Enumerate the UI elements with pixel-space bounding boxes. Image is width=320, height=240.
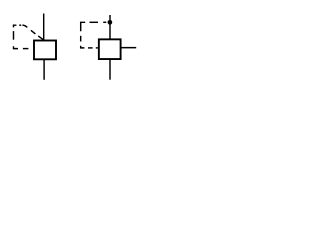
junction dot F2 <box>108 20 113 25</box>
mechanical link curve F1 : dash 1 (bend) <box>22 25 27 27</box>
fuse body box F2 <box>99 39 121 59</box>
fuse F2 (with alarm contact) <box>81 15 137 80</box>
fuse F1 (with striker) <box>14 14 57 80</box>
wire top terminal F1 <box>43 14 45 41</box>
striker link dash to junction F2 <box>90 21 99 23</box>
striker housing bracket F1 : top-left corner piece <box>14 25 17 27</box>
fuse body box F1 <box>34 41 56 60</box>
mechanical link curve F1 : dash 3 (to box corner) <box>38 36 43 40</box>
wire bottom terminal F2 <box>109 59 111 80</box>
striker housing bracket F2 : bottom edge dash at box <box>96 47 98 49</box>
striker link short dash at junction F2 <box>103 21 106 23</box>
mechanical link curve F1 : dash 2 <box>31 30 36 34</box>
striker housing bracket F2 : top-left corner piece <box>81 22 86 31</box>
striker housing bracket F1 : bottom edge dash to box <box>23 48 29 50</box>
striker housing bracket F2 : left edge dash <box>80 36 82 42</box>
striker housing bracket F1 : top edge end dash <box>19 24 21 26</box>
wire top terminal F2 <box>109 15 111 39</box>
striker housing bracket F1 : left edge dash <box>13 31 15 40</box>
wire bottom terminal F1 <box>43 59 45 80</box>
striker housing bracket F1 : bottom-left corner piece <box>14 46 19 48</box>
striker housing bracket F2 : bottom edge dash <box>88 47 93 49</box>
striker housing bracket F2 : bottom-left corner piece <box>81 46 85 48</box>
wire alarm side terminal F2 <box>122 47 137 49</box>
